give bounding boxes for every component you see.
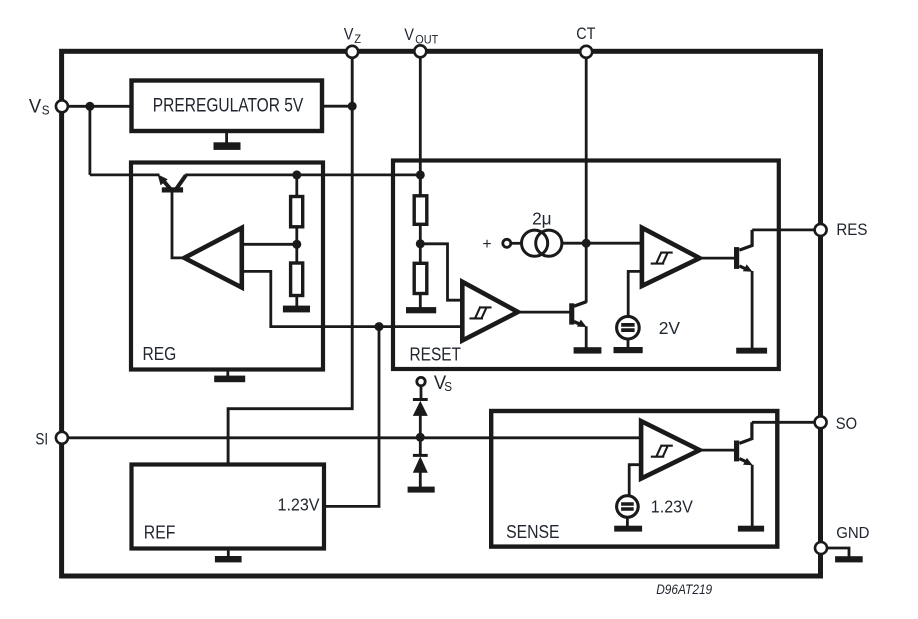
transistor Q2 (RESET output)	[734, 230, 753, 272]
pin VOUT	[414, 45, 426, 57]
terminal VS (clamp top)	[417, 377, 425, 385]
pin SO	[815, 416, 827, 428]
ground below 1.23V reference	[614, 526, 642, 532]
resistor R3 (RESET divider upper)	[414, 196, 427, 225]
comparator U3 (SENSE comparator)	[641, 421, 700, 479]
svg-text:REG: REG	[143, 343, 177, 364]
pin VZ	[346, 46, 358, 58]
wire REG divider top connection	[295, 175, 298, 198]
ground below REG divider	[283, 306, 310, 313]
wire comparator U1 output to Q1 base	[516, 311, 570, 314]
wire VOUT vertical from pin into RESET divider	[419, 55, 422, 197]
pin VS	[56, 100, 68, 112]
ground below REF box	[215, 549, 242, 563]
svg-text:Z: Z	[354, 32, 361, 46]
svg-text:SENSE: SENSE	[506, 521, 559, 542]
wire RESET divider bottom to ground	[419, 293, 422, 309]
wire VS branch down to y175 rail	[89, 106, 92, 175]
wire SI rail node to diode D2	[419, 437, 422, 456]
wire VS clamp terminal down to diode D1	[420, 385, 423, 399]
node dot REG divider top	[292, 170, 301, 179]
resistor R1 (REG divider upper)	[291, 197, 303, 227]
node dot CT at current source	[582, 239, 591, 248]
pin RES	[815, 224, 827, 236]
wire RESET divider middle	[419, 224, 422, 265]
wire REG amp tip to Q-REG base stem	[172, 191, 185, 258]
pin GND	[815, 542, 827, 554]
wire REG divider middle	[295, 226, 298, 264]
svg-text:RESET: RESET	[410, 344, 462, 365]
pin SI	[56, 432, 68, 444]
ground below Q2 emitter	[736, 348, 767, 354]
comparator U1 (RESET lower comparator)	[462, 282, 518, 341]
node dot PREREG output at VZ	[348, 102, 357, 111]
wire VZ vertical from pin down, left jog, down to REF top	[228, 55, 352, 466]
ground below PREREGULATOR	[214, 131, 241, 150]
svg-text:SI: SI	[35, 431, 48, 449]
diode D1 (upper clamp)	[413, 400, 428, 416]
wire diode D2 to ground	[419, 472, 422, 488]
ground below Q1 emitter	[574, 347, 602, 353]
ground below RESET divider	[406, 307, 436, 313]
wire 2V reference to ground	[627, 339, 630, 349]
reference source 1.23V (SENSE, circle with bars)	[617, 496, 639, 518]
wire SENSE comparator output to Q3 base	[699, 449, 735, 452]
terminal circle at current source input	[503, 239, 511, 247]
node dot SI rail at clamp	[416, 433, 425, 442]
current source 2u (interlocked circles)	[522, 230, 562, 256]
svg-text:CT: CT	[576, 25, 595, 43]
wire current source terminal to circles	[510, 242, 522, 245]
wire REG amp upper input to divider mid	[240, 243, 297, 246]
svg-text:S: S	[42, 104, 50, 118]
pin CT	[580, 46, 592, 58]
wire SI rail from pin to SENSE comparator	[65, 436, 641, 439]
resistor R2 (REG divider lower)	[291, 263, 303, 296]
ground below 2V reference	[614, 347, 643, 353]
ground below REG box	[214, 370, 245, 383]
reference source 2V (circle with bars)	[617, 316, 640, 339]
block RESET	[393, 161, 779, 370]
svg-text:REF: REF	[144, 521, 176, 542]
transistor Q1 (RESET, discharges CT)	[569, 302, 586, 349]
node dot REG divider mid	[292, 240, 301, 249]
svg-text:2V: 2V	[659, 318, 681, 338]
wire Q2 emitter down to ground	[751, 271, 754, 349]
wire Q3 emitter down to ground	[751, 465, 754, 527]
node dot REF output on y327 rail	[375, 322, 384, 331]
svg-text:V: V	[404, 26, 414, 44]
transistor Q3 (SENSE output)	[734, 422, 753, 465]
block SENSE	[491, 411, 777, 547]
wire SENSE comparator lower input to 1.23V reference	[629, 465, 641, 497]
node dot VS branch	[85, 102, 94, 111]
svg-text:OUT: OUT	[415, 32, 439, 46]
node dot RESET divider mid	[416, 239, 425, 248]
wire supply rail y175 left of Q-REG	[90, 173, 160, 176]
wire comparator U2 output to Q2 base	[699, 257, 735, 260]
transistor Q-REG (pass transistor in REG)	[158, 174, 186, 192]
ground below Q3 emitter	[738, 526, 764, 532]
diode D2 (lower clamp)	[413, 455, 428, 472]
ground below diode D2	[408, 487, 435, 493]
wire PREREGULATOR output to VZ line	[320, 105, 352, 108]
resistor R4 (RESET divider lower)	[414, 263, 427, 293]
block REG	[131, 163, 323, 370]
wire REG amp lower connection down to output rail	[240, 271, 271, 326]
svg-text:1.23V: 1.23V	[651, 497, 693, 517]
wire CT vertical from pin down to Q1 collector	[585, 55, 588, 303]
wire REG divider bottom to ground	[295, 295, 298, 307]
comparator U2 (RESET upper comparator)	[642, 228, 700, 286]
svg-text:S: S	[444, 380, 452, 394]
svg-text:1.23V: 1.23V	[278, 495, 320, 515]
wire 1.23V reference to ground	[626, 516, 629, 527]
outer chip boundary	[62, 51, 821, 576]
wire comparator U2 lower input to 2V reference	[628, 271, 642, 317]
wire RESET divider mid tap to comparator U1 upper input	[420, 244, 463, 300]
svg-text:SO: SO	[836, 415, 857, 433]
wire supply rail y175 right of Q-REG to VOUT line	[185, 173, 420, 176]
wire RES from Q2 collector to RES pin	[752, 228, 815, 231]
svg-text:D96AT219: D96AT219	[656, 581, 712, 597]
wire REG output rail y327 to comparator U1 input	[269, 325, 463, 328]
op-amp A1 (REG error amplifier, points left)	[184, 228, 242, 288]
svg-text:2μ: 2μ	[532, 208, 552, 228]
svg-text:PREREGULATOR 5V: PREREGULATOR 5V	[153, 96, 304, 117]
svg-text:V: V	[344, 25, 354, 43]
block PREREGULATOR 5V	[132, 81, 323, 132]
svg-text:V: V	[29, 96, 42, 117]
ground at GND pin	[827, 548, 863, 562]
wire RESET divider upper	[419, 173, 422, 197]
svg-text:GND: GND	[836, 525, 869, 542]
block REF	[132, 465, 325, 549]
svg-text:+: +	[482, 236, 491, 253]
node dot VOUT rail	[416, 170, 425, 179]
wire current source to CT line and comparator U2 input	[561, 242, 643, 245]
wire VS pin to PREREGULATOR input	[65, 105, 133, 108]
wire diode D1 to SI rail node	[419, 415, 422, 437]
svg-text:RES: RES	[836, 221, 867, 239]
wire REF 1.23V output up to node on y327 rail	[324, 327, 379, 507]
wire SO from Q3 collector to SO pin	[752, 421, 816, 424]
